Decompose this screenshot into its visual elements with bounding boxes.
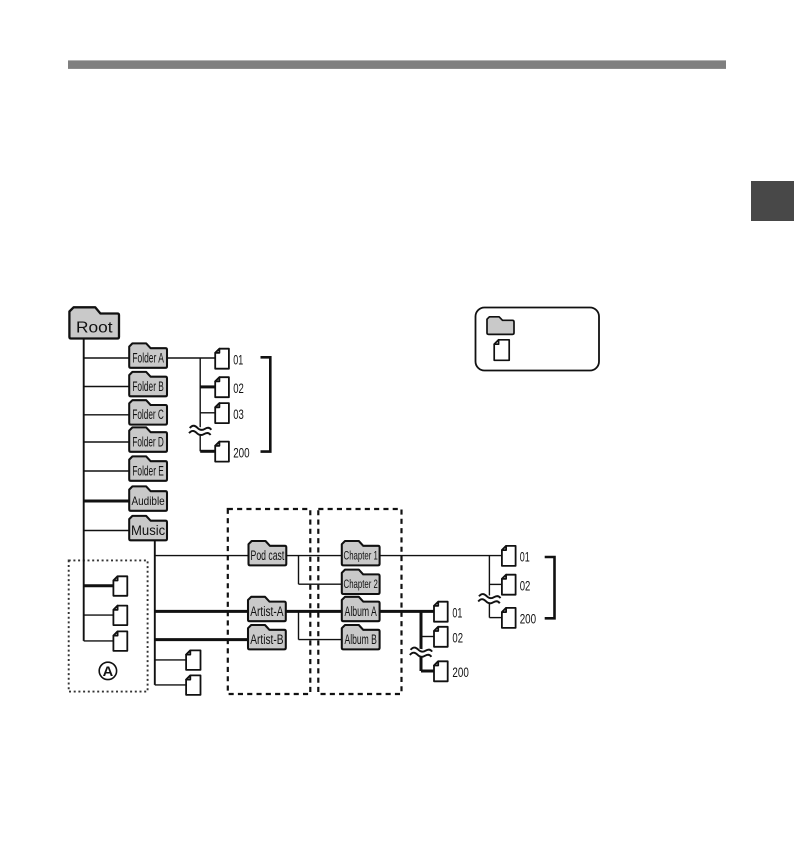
- svg-text:Folder E: Folder E: [132, 463, 164, 478]
- wire branch to voice file 3: [84, 640, 114, 642]
- wire Folder A to file 01: [167, 357, 215, 359]
- wire branch to voice file 1 (bold): [84, 584, 114, 587]
- file voice file 3: [113, 631, 127, 651]
- folder Folder D: [129, 427, 167, 451]
- wire branch to file 02 (bold): [200, 385, 215, 388]
- wire branch to Album B: [299, 639, 342, 641]
- wire branch to chapter file 200: [489, 617, 502, 619]
- wire branch to Music: [84, 530, 130, 532]
- folder Root: [69, 307, 119, 338]
- file voice file 1: [113, 576, 127, 596]
- svg-text:Pod cast: Pod cast: [251, 548, 285, 563]
- file 200 (Album A): [434, 661, 469, 681]
- wire branch to Folder A: [84, 357, 130, 359]
- wire branch to Audible (bold): [84, 500, 130, 503]
- folder Artist-B: [248, 625, 286, 649]
- wire artist drop line: [298, 611, 300, 639]
- svg-text:200: 200: [452, 665, 468, 680]
- wire music trunk: [154, 540, 156, 685]
- folder Folder A: [129, 343, 167, 367]
- wire branch to Artist-A (bold): [155, 610, 248, 613]
- bracket group1: [261, 357, 271, 451]
- wire branch to Artist-B (bold): [155, 638, 248, 641]
- wire branch to Chapter 2: [299, 583, 342, 585]
- svg-text:01: 01: [452, 605, 462, 620]
- folder Music: [129, 516, 167, 540]
- file voice file 2: [113, 606, 127, 626]
- wire group1 drop line: [199, 358, 201, 451]
- wire group3 drop line (bold): [420, 611, 423, 671]
- svg-text:Music: Music: [131, 523, 165, 538]
- file music file 1: [186, 650, 200, 670]
- svg-text:Folder C: Folder C: [132, 407, 164, 422]
- chapter tab (page edge): [751, 181, 794, 221]
- dashed box (album level): [318, 509, 401, 694]
- wire group2 drop line: [488, 556, 490, 618]
- wire podcast drop line: [298, 556, 300, 585]
- svg-text:Chapter 1: Chapter 1: [344, 549, 378, 563]
- break mark group2: [477, 593, 501, 605]
- svg-text:200: 200: [233, 445, 249, 460]
- file 02 (Album A): [434, 627, 463, 647]
- wire branch to music file 2: [155, 684, 186, 686]
- file music file 2: [186, 675, 200, 695]
- svg-text:Folder B: Folder B: [132, 379, 164, 394]
- file 03 (Folder A): [215, 403, 244, 423]
- svg-text:Chapter 2: Chapter 2: [344, 577, 378, 591]
- wire branch to album file 02: [421, 636, 434, 638]
- page heading rule (gray bar): [68, 60, 726, 69]
- wire Pod cast to Chapter 1: [286, 555, 342, 557]
- svg-text:02: 02: [520, 578, 531, 593]
- folder Folder B: [129, 372, 167, 396]
- folder Audible: [129, 486, 167, 510]
- wire branch to Folder B: [84, 386, 130, 388]
- bracket group2: [545, 557, 555, 618]
- dotted box (recorder folders group A): [69, 560, 148, 691]
- wire Album A to file 01 (bold): [380, 610, 434, 613]
- svg-text:200: 200: [520, 612, 536, 627]
- file 01 (Album A): [434, 602, 462, 622]
- wire branch to voice file 2: [84, 614, 114, 616]
- break mark group3: [409, 647, 433, 659]
- wire branch to file 200 (bold): [200, 450, 215, 453]
- file 200 (Chapter 1): [502, 608, 536, 628]
- dashed box (artist level): [228, 509, 310, 694]
- svg-text:Album A: Album A: [345, 604, 377, 619]
- svg-text:02: 02: [452, 631, 463, 646]
- wire Artist-A to Album A (bold): [286, 610, 342, 613]
- svg-text:Artist-A: Artist-A: [250, 604, 283, 619]
- legend file icon: [494, 340, 509, 361]
- folder Pod cast: [249, 541, 287, 565]
- folder Folder C: [129, 400, 167, 424]
- file 02 (Chapter 1): [502, 575, 530, 595]
- wire branch to Folder D: [84, 441, 130, 443]
- wire branch to file 03: [200, 412, 215, 414]
- folder Album A: [342, 597, 380, 621]
- file 02 (Folder A): [215, 377, 244, 397]
- legend folder icon: [487, 317, 514, 335]
- file 01 (Chapter 1): [502, 546, 530, 566]
- legend box: [476, 308, 600, 371]
- svg-text:Artist-B: Artist-B: [250, 632, 283, 647]
- label circle A: [99, 662, 116, 679]
- wire Chapter 1 to file 01: [380, 555, 502, 557]
- svg-text:Audible: Audible: [132, 494, 166, 508]
- wire root trunk: [83, 338, 85, 641]
- file 01 (Folder A): [215, 349, 243, 369]
- svg-text:02: 02: [233, 381, 244, 396]
- wire branch to music file 1: [155, 659, 186, 661]
- svg-text:A: A: [103, 663, 114, 679]
- folder Artist-A: [248, 597, 286, 621]
- wire branch to album file 200 (bold): [421, 670, 434, 673]
- folder Folder E: [129, 456, 167, 480]
- wire branch to Pod cast: [155, 555, 249, 557]
- wire branch to chapter file 02: [489, 583, 502, 585]
- wire branch to Folder C: [84, 414, 130, 416]
- svg-text:Folder D: Folder D: [132, 434, 164, 449]
- folder Album B: [342, 625, 380, 649]
- svg-text:Folder A: Folder A: [132, 350, 164, 365]
- svg-text:03: 03: [233, 407, 244, 422]
- folder Chapter 2: [342, 570, 380, 594]
- wire branch to Folder E: [84, 470, 130, 472]
- file 200 (Folder A): [215, 442, 249, 462]
- folder Chapter 1: [342, 541, 380, 565]
- svg-text:Root: Root: [76, 319, 113, 336]
- svg-text:Album B: Album B: [345, 632, 377, 647]
- svg-text:01: 01: [233, 352, 243, 367]
- svg-text:01: 01: [520, 550, 530, 565]
- break mark group1: [188, 425, 212, 437]
